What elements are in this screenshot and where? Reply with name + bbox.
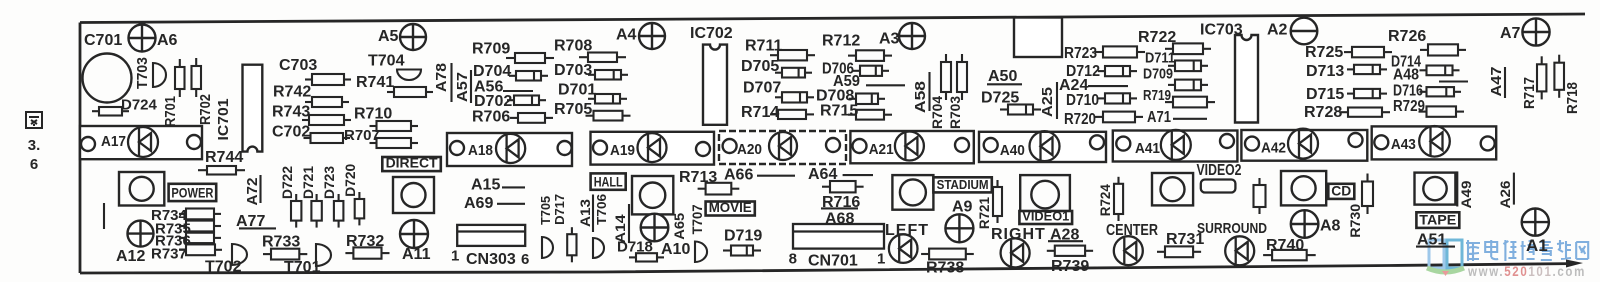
svg-text:A69: A69 [464, 195, 493, 212]
figure caption 图3.6 [26, 112, 42, 128]
svg-text:IC702: IC702 [690, 25, 733, 42]
svg-text:A19: A19 [610, 142, 635, 159]
svg-text:VIDEO2: VIDEO2 [1197, 162, 1242, 179]
svg-text:A4: A4 [616, 27, 637, 44]
svg-text:A41: A41 [1135, 140, 1160, 157]
resistor below R719 [1165, 97, 1215, 108]
svg-text:R720: R720 [1064, 111, 1096, 128]
svg-text:A25: A25 [1039, 87, 1056, 117]
svg-text:R730: R730 [1347, 204, 1363, 238]
svg-text:T705: T705 [538, 196, 553, 225]
svg-text:R714: R714 [741, 104, 779, 121]
svg-text:A9: A9 [952, 199, 973, 216]
svg-text:D703: D703 [554, 62, 592, 79]
svg-text:R744: R744 [205, 149, 243, 166]
svg-text:T706: T706 [594, 194, 609, 225]
diode D724 [92, 107, 129, 116]
relay strip A17 [80, 126, 202, 159]
svg-text:1: 1 [451, 248, 459, 265]
svg-text:R708: R708 [554, 38, 592, 55]
watermark book icon [1427, 240, 1464, 276]
svg-text:D705: D705 [741, 58, 779, 75]
svg-text:T701: T701 [284, 259, 321, 276]
svg-text:A43: A43 [1391, 136, 1416, 153]
svg-text:CD: CD [1331, 182, 1351, 198]
resistor R739 [1047, 246, 1093, 256]
svg-text:D709: D709 [1143, 66, 1173, 83]
svg-text:R728: R728 [1304, 104, 1342, 121]
screw hole A12 [128, 221, 154, 247]
svg-text:R704: R704 [929, 96, 945, 129]
label MOVIE [706, 202, 755, 216]
tape switch [1415, 173, 1456, 205]
resistor R717 [1537, 56, 1546, 99]
hall switch [632, 176, 673, 214]
svg-text:STADIUM: STADIUM [937, 177, 989, 192]
svg-text:A12: A12 [116, 248, 145, 265]
svg-text:C703: C703 [279, 57, 317, 74]
svg-text:D710: D710 [1066, 92, 1099, 109]
svg-text:IC701: IC701 [215, 99, 232, 141]
svg-text:A48: A48 [1393, 67, 1419, 84]
svg-text:A47: A47 [1488, 67, 1505, 97]
svg-text:R738: R738 [926, 260, 964, 277]
svg-text:R711: R711 [745, 38, 782, 55]
svg-text:A78: A78 [433, 63, 450, 92]
relay strip A19 [591, 132, 715, 165]
resistor R718 [1554, 55, 1564, 98]
svg-text:A6: A6 [157, 32, 178, 49]
relay strip A43 [1372, 126, 1497, 159]
svg-text:R717: R717 [1521, 77, 1538, 109]
svg-text:A15: A15 [471, 177, 500, 194]
svg-text:T704: T704 [368, 53, 405, 70]
svg-text:D713: D713 [1306, 63, 1344, 80]
svg-text:3.: 3. [28, 137, 41, 154]
label TAPE [1416, 212, 1459, 228]
resistor R738 [921, 249, 974, 260]
resistor R730 [1362, 174, 1373, 215]
svg-text:POWER: POWER [171, 185, 213, 201]
movie switch [892, 175, 933, 210]
relay strip A40 [979, 132, 1106, 162]
svg-text:D702: D702 [474, 93, 512, 110]
svg-text:R739: R739 [1051, 258, 1089, 275]
svg-text:LEFT: LEFT [885, 222, 929, 239]
svg-text:A42: A42 [1261, 140, 1286, 157]
board outline bottom edge with arrow [80, 264, 1570, 273]
svg-text:A2: A2 [1267, 22, 1288, 39]
svg-text:A13: A13 [577, 199, 593, 227]
svg-text:R743: R743 [272, 104, 310, 121]
svg-text:A50: A50 [988, 68, 1017, 85]
svg-text:6: 6 [30, 156, 38, 173]
svg-text:A8: A8 [1320, 218, 1341, 235]
board outline top edge [80, 14, 1585, 23]
svg-text:8: 8 [789, 251, 797, 268]
svg-text:A40: A40 [1000, 142, 1025, 159]
svg-text:D716: D716 [1393, 83, 1423, 100]
svg-text:R715: R715 [820, 103, 858, 120]
svg-text:HALL: HALL [594, 173, 623, 189]
svg-text:R707: R707 [344, 127, 380, 144]
svg-text:A18: A18 [468, 142, 493, 159]
svg-text:R726: R726 [1388, 28, 1426, 45]
svg-text:A7: A7 [1500, 25, 1521, 42]
label HALL [591, 173, 626, 189]
video1 switch [1020, 175, 1070, 214]
resistor R702 [192, 58, 202, 97]
relay strip A18 [447, 133, 572, 166]
svg-text:R724: R724 [1097, 184, 1113, 216]
svg-text:R709: R709 [472, 41, 510, 58]
cd switch [1281, 171, 1326, 205]
board outline left edge [79, 23, 82, 274]
label DIRECT [382, 157, 441, 171]
svg-text:R702: R702 [197, 94, 214, 125]
svg-text:TAPE: TAPE [1419, 211, 1456, 227]
resistor R704 [941, 54, 951, 100]
resistor R701 [175, 59, 185, 97]
svg-text:A5: A5 [378, 28, 399, 45]
svg-text:A66: A66 [724, 167, 753, 184]
svg-text:R710: R710 [354, 106, 392, 123]
screw hole A10 [641, 214, 669, 242]
jumper VIDEO2 [1201, 180, 1236, 193]
svg-text:SURROUND: SURROUND [1197, 220, 1267, 237]
resistor near surround [1254, 178, 1266, 214]
svg-text:R718: R718 [1564, 82, 1581, 114]
resistor R716 [822, 181, 864, 192]
svg-text:D719: D719 [724, 228, 762, 245]
svg-text:D722: D722 [279, 166, 295, 199]
svg-text:CN701: CN701 [808, 253, 858, 270]
svg-text:R703: R703 [947, 96, 963, 129]
connector CN701 [793, 224, 884, 249]
resistor R703 [957, 54, 967, 100]
svg-text:D711: D711 [1145, 50, 1175, 67]
relay strip A21 [850, 131, 973, 163]
svg-text:R706: R706 [472, 109, 510, 126]
svg-text:A58: A58 [912, 81, 929, 113]
svg-text:R723: R723 [1064, 45, 1097, 62]
relay strip A41 [1113, 131, 1238, 162]
connector CN303 [457, 225, 525, 246]
svg-text:D717: D717 [552, 194, 567, 225]
svg-text:DIRECT: DIRECT [386, 155, 438, 171]
label STADIUM [933, 177, 991, 192]
svg-text:CN303: CN303 [466, 251, 516, 268]
svg-text:MOVIE: MOVIE [709, 199, 752, 215]
screw hole A1 [1522, 209, 1549, 236]
svg-text:A65: A65 [671, 213, 687, 240]
IC701 [243, 65, 263, 152]
svg-text:A21: A21 [869, 141, 894, 158]
svg-text:D721: D721 [300, 166, 316, 199]
svg-text:A1: A1 [1526, 236, 1548, 255]
label CD [1328, 184, 1354, 199]
video2 switch [1152, 173, 1193, 205]
svg-text:D707: D707 [743, 80, 781, 97]
svg-text:R741: R741 [356, 74, 394, 91]
direct switch [393, 177, 434, 213]
svg-text:1: 1 [877, 251, 885, 268]
label VIDEO1 [1019, 211, 1072, 224]
svg-text:VIDEO1: VIDEO1 [1022, 209, 1069, 224]
svg-text:T702: T702 [205, 259, 242, 276]
svg-text:A72: A72 [244, 178, 261, 206]
relay strip A42 [1241, 130, 1367, 161]
svg-text:A3: A3 [879, 31, 900, 48]
svg-text:R721: R721 [976, 197, 992, 229]
svg-text:RIGHT: RIGHT [991, 226, 1046, 243]
svg-text:D724: D724 [121, 97, 158, 114]
svg-text:D723: D723 [321, 166, 337, 199]
svg-text:R712: R712 [822, 33, 860, 50]
svg-text:R737: R737 [151, 246, 187, 263]
power switch [119, 172, 164, 206]
svg-text:A26: A26 [1497, 180, 1513, 208]
screw hole A6 [129, 25, 156, 52]
svg-text:R725: R725 [1305, 44, 1343, 61]
svg-text:D704: D704 [473, 63, 511, 80]
capacitor C701 [83, 54, 132, 103]
svg-text:A49: A49 [1458, 180, 1474, 208]
svg-text:T703: T703 [134, 57, 151, 89]
svg-text:R742: R742 [273, 84, 311, 101]
screw hole A8 [1291, 210, 1319, 238]
svg-text:A20: A20 [737, 141, 762, 158]
top edge connector tab [1014, 18, 1062, 58]
svg-text:D715: D715 [1306, 86, 1344, 103]
svg-text:6: 6 [521, 251, 529, 268]
svg-text:A71: A71 [1147, 109, 1171, 126]
svg-text:D720: D720 [342, 164, 358, 197]
svg-text:A10: A10 [661, 241, 690, 258]
node A49 [1456, 171, 1458, 206]
relay strip A20 [719, 131, 846, 164]
svg-text:C701: C701 [84, 32, 122, 49]
wire near power [103, 203, 105, 229]
svg-text:D701: D701 [558, 82, 596, 99]
transistor T702 [232, 244, 247, 265]
svg-text:A17: A17 [101, 133, 126, 150]
screw hole A11 [400, 220, 428, 248]
svg-text:A11: A11 [402, 246, 431, 263]
watermark text 家电维修资料网 [1466, 240, 1588, 261]
svg-text:www.520101.com: www.520101.com [1467, 263, 1586, 279]
svg-text:T707: T707 [689, 204, 705, 234]
svg-text:R701: R701 [162, 96, 179, 127]
transistor T701 [316, 244, 331, 266]
transistor T703 [153, 63, 166, 87]
label POWER [169, 184, 217, 201]
svg-text:A57: A57 [454, 72, 471, 102]
svg-text:R722: R722 [1138, 29, 1176, 46]
